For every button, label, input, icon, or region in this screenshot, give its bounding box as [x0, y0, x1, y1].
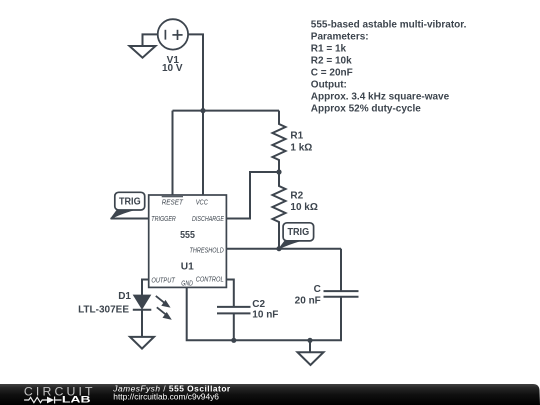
ground — [130, 46, 156, 58]
svg-text:LAB: LAB — [62, 395, 91, 405]
annotation text — [311, 19, 467, 114]
svg-text:D1: D1 — [118, 291, 131, 302]
R1 value label — [290, 131, 312, 154]
wire — [187, 287, 341, 340]
wire — [141, 310, 143, 337]
svg-text:555-based astable multi-vibrat: 555-based astable multi-vibrator. — [311, 19, 467, 30]
svg-text:VCC: VCC — [196, 197, 209, 206]
node junction — [231, 338, 236, 343]
wire — [188, 34, 203, 195]
C2 value label — [252, 299, 278, 320]
svg-text:LTL-307EE: LTL-307EE — [78, 304, 129, 315]
svg-text:Output:: Output: — [311, 79, 347, 90]
svg-text:http://circuitlab.com/c9v94y6: http://circuitlab.com/c9v94y6 — [113, 392, 219, 402]
flag TRIG at trigger input — [111, 192, 145, 219]
svg-text:RESET: RESET — [162, 197, 184, 206]
wire — [111, 218, 149, 220]
resistor R2 — [273, 172, 286, 249]
svg-text:C: C — [314, 284, 321, 295]
ground — [298, 352, 324, 365]
svg-text:10 nF: 10 nF — [252, 310, 278, 321]
svg-text:Approx 52% duty-cycle: Approx 52% duty-cycle — [311, 103, 421, 114]
capacitor C2 — [217, 307, 251, 314]
ground — [130, 337, 154, 349]
node junction — [276, 246, 281, 251]
wire — [173, 110, 280, 112]
svg-text:OUTPUT: OUTPUT — [151, 275, 175, 284]
LED D1 — [133, 295, 171, 319]
wire — [226, 280, 233, 307]
C value label — [295, 284, 321, 306]
svg-text:555: 555 — [180, 229, 195, 241]
capacitor C — [324, 291, 359, 297]
wire — [226, 248, 341, 250]
wire — [226, 172, 279, 219]
IC U1 555 timer — [149, 195, 227, 287]
svg-text:TRIG: TRIG — [287, 227, 309, 238]
svg-text:TRIGGER: TRIGGER — [151, 214, 176, 223]
node junction — [307, 338, 312, 343]
svg-text:R1 = 1k: R1 = 1k — [311, 43, 347, 54]
R2 value label — [290, 190, 317, 213]
node junction — [200, 108, 205, 113]
svg-text:C = 20nF: C = 20nF — [311, 67, 353, 78]
wire — [340, 249, 342, 291]
node junction — [276, 169, 281, 174]
footer bar — [0, 384, 540, 405]
voltage source V1 — [158, 19, 188, 49]
resistor R1 — [273, 111, 286, 172]
svg-text:10 kΩ: 10 kΩ — [290, 202, 317, 213]
V1 value label — [162, 55, 183, 74]
wire — [142, 280, 149, 296]
schematic title text — [112, 384, 231, 402]
CircuitLab logo — [24, 385, 93, 405]
svg-text:DISCHARGE: DISCHARGE — [192, 214, 225, 223]
svg-text:TRIG: TRIG — [119, 196, 141, 207]
svg-text:U1: U1 — [181, 261, 194, 273]
svg-text:Parameters:: Parameters: — [311, 31, 369, 42]
svg-text:THRESHOLD: THRESHOLD — [190, 245, 225, 254]
svg-text:GND: GND — [181, 278, 193, 287]
svg-text:R1: R1 — [290, 131, 303, 142]
wire — [172, 111, 174, 195]
wire — [143, 34, 159, 46]
svg-text:1 kΩ: 1 kΩ — [290, 142, 312, 153]
svg-text:R2 = 10k: R2 = 10k — [311, 55, 352, 66]
wire — [233, 313, 235, 340]
svg-text:10 V: 10 V — [162, 63, 183, 74]
D1 value label — [78, 291, 131, 315]
svg-text:R2: R2 — [290, 190, 303, 201]
flag TRIG at threshold node — [279, 223, 314, 249]
svg-text:CONTROL: CONTROL — [196, 275, 224, 284]
overline on RESET — [162, 196, 183, 198]
svg-text:Approx. 3.4 kHz square-wave: Approx. 3.4 kHz square-wave — [311, 91, 450, 102]
wire — [309, 340, 311, 352]
svg-text:20 nF: 20 nF — [295, 295, 321, 306]
